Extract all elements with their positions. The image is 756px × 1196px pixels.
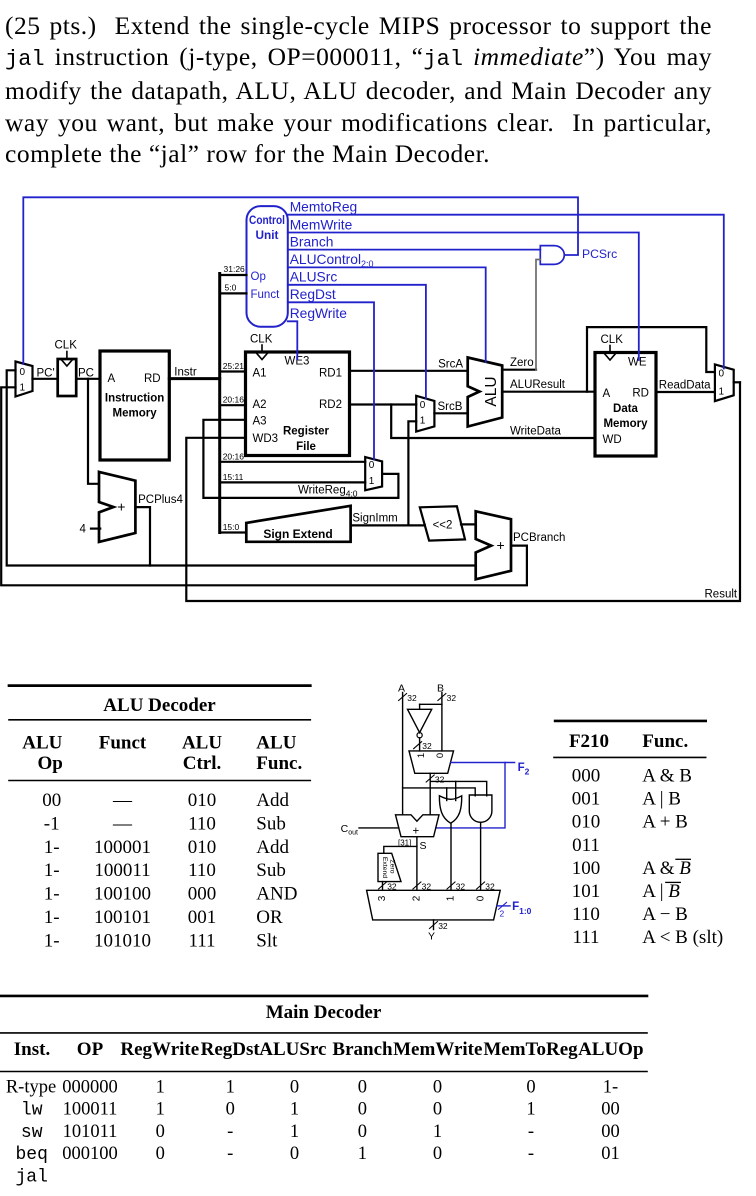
wire SrcA (RD1 to ALU) [350, 358, 468, 371]
wire F1:0 (blue select) [497, 901, 532, 919]
svg-text:RegDst: RegDst [290, 287, 336, 302]
svg-text:0: 0 [435, 753, 446, 758]
svg-text:RegDst: RegDst [201, 1039, 261, 1060]
wire Result to WD3 [186, 382, 740, 601]
node A input [398, 683, 417, 815]
svg-text:RD: RD [144, 373, 161, 385]
register file [246, 334, 350, 456]
svg-text:A1: A1 [253, 368, 267, 380]
svg-text:RegWrite: RegWrite [120, 1039, 199, 1060]
wire AND output [480, 823, 482, 891]
svg-text:beq: beq [15, 1145, 47, 1165]
svg-text:101010: 101010 [94, 930, 151, 951]
svg-text:001: 001 [188, 907, 217, 928]
svg-text:111: 111 [572, 927, 599, 948]
svg-text:100: 100 [572, 858, 601, 879]
svg-text:1: 1 [156, 1100, 165, 1120]
svg-text:Y: Y [428, 931, 435, 943]
svg-text:1-: 1- [603, 1077, 618, 1097]
svg-text:CLK: CLK [55, 340, 78, 352]
svg-text:100101: 100101 [94, 907, 151, 928]
svg-text:-: - [528, 1122, 534, 1142]
svg-text:A & B: A & B [642, 766, 692, 787]
wire ALUControl (blue) [288, 252, 486, 362]
svg-text:-1: -1 [44, 813, 60, 834]
svg-text:32: 32 [422, 741, 432, 751]
svg-text:Data: Data [613, 403, 639, 415]
svg-text:A | B: A | B [642, 881, 680, 902]
adder PCBranch [476, 511, 511, 579]
wire Y output [428, 920, 448, 943]
svg-text:ALUControl2:0: ALUControl2:0 [290, 252, 374, 269]
shifter left-shift-2 [420, 506, 465, 540]
svg-text:sw: sw [21, 1123, 43, 1143]
svg-text:Sign Extend: Sign Extend [263, 527, 332, 541]
svg-text:110: 110 [188, 813, 216, 834]
svg-text:F210: F210 [569, 731, 609, 752]
svg-text:15:0: 15:0 [223, 522, 240, 532]
wire zero extend output [379, 882, 397, 892]
svg-text:Instruction: Instruction [105, 393, 164, 405]
svg-text:[31]: [31] [398, 839, 411, 848]
svg-text:SrcB: SrcB [438, 401, 463, 413]
svg-text:ALUSrc: ALUSrc [259, 1039, 326, 1060]
svg-text:A & B: A & B [642, 858, 691, 879]
slash OR input [447, 882, 465, 892]
svg-text:Branch: Branch [290, 234, 334, 249]
svg-text:25:21: 25:21 [223, 361, 245, 371]
svg-text:ReadData: ReadData [659, 380, 711, 392]
svg-text:PCPlus4: PCPlus4 [138, 494, 183, 506]
svg-text:1: 1 [416, 753, 427, 758]
mux SrcB select [416, 396, 434, 432]
svg-text:-: - [528, 1144, 534, 1164]
svg-text:0: 0 [433, 1077, 442, 1097]
svg-text:1: 1 [526, 1100, 535, 1120]
wire PCPlus4 loop (adder output to PC mux input 0 and branch adder) [7, 370, 476, 565]
wire Funct input [220, 292, 247, 294]
svg-text:A: A [603, 388, 611, 400]
svg-text:File: File [296, 441, 316, 453]
wire RD2 / WriteData [350, 405, 596, 439]
svg-text:A | B: A | B [642, 789, 681, 810]
mux function select (4:1) [367, 890, 501, 920]
wire Bsel distribution (to OR right, AND right) [430, 781, 487, 800]
svg-text:100001: 100001 [94, 837, 151, 858]
svg-text:Add: Add [256, 837, 289, 858]
wire Instr 25:21 to A1 [220, 361, 246, 372]
svg-text:lw: lw [21, 1101, 43, 1121]
svg-text:Extend: Extend [381, 857, 388, 878]
svg-text:Memory: Memory [113, 408, 158, 420]
svg-text:32: 32 [438, 921, 448, 931]
svg-text:0: 0 [226, 1100, 235, 1120]
svg-text:32: 32 [447, 693, 457, 703]
svg-text:WE: WE [628, 357, 647, 369]
wire SrcB (mux to ALU) [434, 401, 467, 414]
svg-text:1-: 1- [44, 930, 60, 951]
svg-text:CLK: CLK [250, 334, 273, 346]
control unit U1 [247, 206, 288, 327]
svg-text:101011: 101011 [63, 1122, 118, 1142]
node Cout [341, 823, 399, 837]
wire A distribution (to OR left, AND left) [403, 788, 476, 801]
wire OR output [450, 823, 452, 890]
svg-text:1: 1 [290, 1122, 299, 1142]
svg-text:Sub: Sub [256, 860, 286, 881]
wire ReadData (data memory to Result mux 1) [656, 380, 715, 393]
svg-text:WriteData: WriteData [510, 426, 562, 438]
svg-text:A < B (slt): A < B (slt) [642, 927, 723, 948]
svg-text:RegWrite: RegWrite [290, 306, 348, 321]
svg-text:ALU: ALU [483, 376, 500, 406]
svg-text:A: A [398, 683, 405, 695]
svg-text:+: + [497, 537, 505, 553]
svg-text:Func.: Func. [256, 753, 302, 774]
svg-text:20:16: 20:16 [223, 451, 245, 461]
svg-text:F2: F2 [518, 762, 530, 777]
svg-text:Result: Result [705, 589, 738, 601]
svg-text:0: 0 [156, 1122, 165, 1142]
svg-text:000000: 000000 [62, 1077, 118, 1097]
svg-text:1-: 1- [44, 907, 60, 928]
svg-text:ALUResult: ALUResult [510, 379, 566, 391]
svg-text:ALU: ALU [182, 733, 222, 754]
svg-text:OP: OP [77, 1039, 104, 1060]
wire mux output (B or Bnot) [426, 773, 444, 815]
node B input [437, 683, 456, 751]
svg-text:SrcA: SrcA [438, 358, 463, 370]
svg-text:Op: Op [251, 271, 266, 283]
svg-text:ALUSrc: ALUSrc [290, 270, 338, 285]
svg-text:4: 4 [80, 524, 87, 536]
svg-text:Unit: Unit [256, 228, 279, 242]
svg-text:AND: AND [256, 884, 297, 905]
svg-text:Zero: Zero [388, 860, 395, 874]
svg-text:00: 00 [42, 790, 61, 811]
svg-text:ALU: ALU [22, 733, 62, 754]
svg-text:WriteReg4:0: WriteReg4:0 [298, 484, 358, 498]
svg-text:PCSrc: PCSrc [582, 247, 617, 261]
wire shifter to PCBranch adder [461, 523, 476, 525]
wire ALUSrc (blue) [288, 270, 426, 399]
svg-text:0: 0 [358, 1077, 367, 1097]
svg-text:0: 0 [369, 460, 375, 471]
svg-text:Add: Add [256, 790, 289, 811]
OR gate (A|B) [439, 796, 461, 823]
wire PC (register to instruction memory, tap to PCPlus4 adder) [76, 379, 100, 484]
wire WriteReg (mux output to A3) [203, 420, 398, 499]
svg-text:0: 0 [290, 1144, 299, 1164]
svg-text:—: — [112, 813, 133, 834]
AND gate PCSrc [540, 246, 564, 265]
svg-text:000: 000 [572, 766, 601, 787]
wire PCBranch loop (branch adder output to PC mux input 1) [1, 387, 565, 585]
svg-text:011: 011 [572, 835, 600, 856]
svg-text:-: - [227, 1144, 233, 1164]
wire ALUResult (ALU to data memory A and Result mux 0) [502, 327, 715, 392]
svg-text:A − B: A − B [642, 904, 688, 925]
svg-text:1: 1 [226, 1077, 235, 1097]
svg-text:1-: 1- [44, 837, 60, 858]
mux WriteReg select [365, 457, 382, 490]
svg-text:MemToReg: MemToReg [483, 1039, 578, 1060]
svg-text:001: 001 [572, 789, 601, 810]
svg-text:010: 010 [572, 812, 601, 833]
svg-text:A: A [108, 373, 116, 385]
svg-text:110: 110 [188, 860, 216, 881]
adder (A+B) [396, 815, 440, 838]
svg-text:Main Decoder: Main Decoder [266, 1002, 382, 1023]
wire Instr 20:16 to WriteReg mux 0 [220, 451, 366, 462]
svg-text:Register: Register [283, 425, 330, 437]
svg-text:2: 2 [500, 909, 505, 919]
svg-text:F1:0: F1:0 [512, 901, 532, 916]
svg-text:Slt: Slt [256, 930, 278, 951]
svg-text:1: 1 [446, 895, 457, 901]
wire Instr 15:0 to sign extend [220, 522, 247, 533]
inverter (B complement) [408, 704, 442, 751]
svg-text:5:0: 5:0 [225, 283, 237, 293]
wire MemWrite (blue) [288, 217, 639, 360]
svg-text:A3: A3 [253, 416, 267, 428]
wire PCSrc (blue, AND gate output to PC mux select) [23, 197, 617, 364]
svg-text:MemWrite: MemWrite [290, 217, 353, 232]
sign extend unit [246, 506, 350, 542]
svg-text:100100: 100100 [94, 884, 151, 905]
svg-text:RD1: RD1 [319, 368, 342, 380]
svg-text:Func.: Func. [642, 731, 688, 752]
svg-text:Funct: Funct [99, 733, 147, 754]
wire Branch (blue) [288, 234, 541, 249]
svg-text:000100: 000100 [62, 1144, 118, 1164]
svg-text:32: 32 [407, 693, 417, 703]
svg-text:CLK: CLK [601, 334, 624, 346]
svg-text:010: 010 [188, 837, 217, 858]
svg-text:RD2: RD2 [319, 399, 342, 411]
svg-text:100011: 100011 [94, 860, 150, 881]
svg-text:A2: A2 [253, 399, 267, 411]
svg-text:OR: OR [256, 907, 283, 928]
label 4 constant [80, 524, 101, 536]
instruction memory [100, 351, 169, 460]
svg-text:MemWrite: MemWrite [393, 1039, 482, 1060]
svg-text:00: 00 [601, 1122, 620, 1142]
svg-text:Ctrl.: Ctrl. [183, 753, 222, 774]
wire RegWrite (blue) [288, 306, 347, 359]
svg-text:1-: 1- [44, 860, 60, 881]
AND gate (A&B) [469, 795, 492, 822]
wire Op input [220, 274, 247, 276]
svg-text:—: — [112, 790, 133, 811]
ALU [468, 358, 503, 427]
mux Result select [715, 364, 734, 401]
svg-text:0: 0 [719, 369, 725, 380]
svg-text:0: 0 [156, 1144, 165, 1164]
svg-text:1: 1 [156, 1077, 165, 1097]
wire Zero (ALU to AND gate) [502, 260, 540, 370]
wire F2 (blue, select and carry-in) [436, 762, 530, 828]
svg-text:S: S [420, 840, 427, 852]
wire PC' (mux to PC register) [33, 378, 58, 380]
wire RegDst (blue) [288, 287, 374, 459]
svg-text:Memory: Memory [603, 418, 648, 430]
svg-text:32: 32 [435, 775, 445, 785]
svg-text:101: 101 [572, 881, 601, 902]
mux PCmux (PC source select) [16, 362, 33, 397]
wire SignImm (sign extend to shifter and SrcB mux 1) [351, 421, 425, 525]
slash AND input [477, 882, 495, 892]
svg-text:0: 0 [20, 367, 26, 378]
register PC [55, 340, 78, 397]
svg-text:1: 1 [20, 383, 26, 394]
svg-text:1: 1 [358, 1144, 367, 1164]
svg-text:1-: 1- [44, 884, 60, 905]
svg-text:010: 010 [188, 790, 217, 811]
svg-text:110: 110 [572, 904, 600, 925]
svg-text:100011: 100011 [63, 1100, 118, 1120]
svg-text:1: 1 [369, 476, 375, 487]
svg-text:WD3: WD3 [253, 433, 279, 445]
adder PCPlus4 [99, 472, 135, 542]
svg-text:Cout: Cout [341, 823, 358, 837]
zero extend unit [378, 853, 401, 881]
svg-text:jal: jal [15, 1167, 47, 1187]
svg-text:-: - [227, 1122, 233, 1142]
svg-text:1: 1 [719, 387, 725, 398]
svg-text:1: 1 [290, 1100, 299, 1120]
svg-text:Funct: Funct [251, 289, 281, 301]
svg-text:0: 0 [526, 1077, 535, 1097]
svg-text:ALU: ALU [256, 733, 296, 754]
svg-text:0: 0 [420, 400, 426, 411]
svg-text:20:16: 20:16 [223, 395, 245, 405]
svg-text:1: 1 [420, 416, 426, 427]
svg-text:Instr: Instr [174, 367, 197, 379]
svg-text:3: 3 [377, 895, 388, 901]
wire Instr bus [169, 274, 219, 533]
svg-text:0: 0 [358, 1122, 367, 1142]
svg-text:R-type: R-type [6, 1077, 56, 1097]
svg-text:B: B [437, 683, 444, 695]
svg-text:RD: RD [632, 388, 649, 400]
svg-text:0: 0 [358, 1100, 367, 1120]
data memory [595, 334, 656, 456]
svg-text:0: 0 [290, 1077, 299, 1097]
svg-text:A + B: A + B [642, 812, 688, 833]
mux B/Bnot select [409, 751, 454, 773]
svg-text:+: + [413, 826, 420, 838]
svg-text:PCBranch: PCBranch [513, 532, 565, 544]
svg-text:0: 0 [433, 1100, 442, 1120]
wire S[31] to zero extend [384, 839, 417, 854]
svg-text:ALUOp: ALUOp [578, 1039, 643, 1060]
svg-text:Sub: Sub [256, 813, 286, 834]
svg-text:SignImm: SignImm [352, 513, 397, 525]
svg-text:0: 0 [476, 895, 487, 901]
wire Instr 20:16 to A2 [220, 395, 246, 406]
wire Instr 15:11 to WriteReg mux 1 [220, 472, 366, 483]
svg-text:WD: WD [603, 434, 622, 446]
svg-text:2: 2 [412, 895, 423, 901]
svg-text:Inst.: Inst. [14, 1039, 50, 1060]
slash S input [413, 882, 431, 892]
svg-text:15:11: 15:11 [223, 472, 244, 482]
svg-text:000: 000 [188, 884, 217, 905]
wire S (adder sum) [417, 837, 427, 891]
svg-text:Branch: Branch [332, 1039, 393, 1060]
wire MemtoReg (blue) [288, 200, 724, 369]
svg-text:Zero: Zero [510, 357, 534, 369]
svg-text:ALU Decoder: ALU Decoder [103, 695, 216, 716]
svg-text:+: + [117, 498, 125, 514]
svg-text:Control: Control [249, 213, 285, 227]
svg-text:111: 111 [188, 930, 215, 951]
svg-text:31:26: 31:26 [224, 264, 246, 274]
svg-text:Op: Op [38, 753, 63, 774]
svg-text:<<2: <<2 [433, 520, 453, 532]
svg-text:1: 1 [433, 1122, 442, 1142]
svg-text:MemtoReg: MemtoReg [290, 200, 357, 215]
svg-text:01: 01 [601, 1144, 620, 1164]
svg-text:0: 0 [433, 1144, 442, 1164]
svg-text:00: 00 [601, 1100, 620, 1120]
